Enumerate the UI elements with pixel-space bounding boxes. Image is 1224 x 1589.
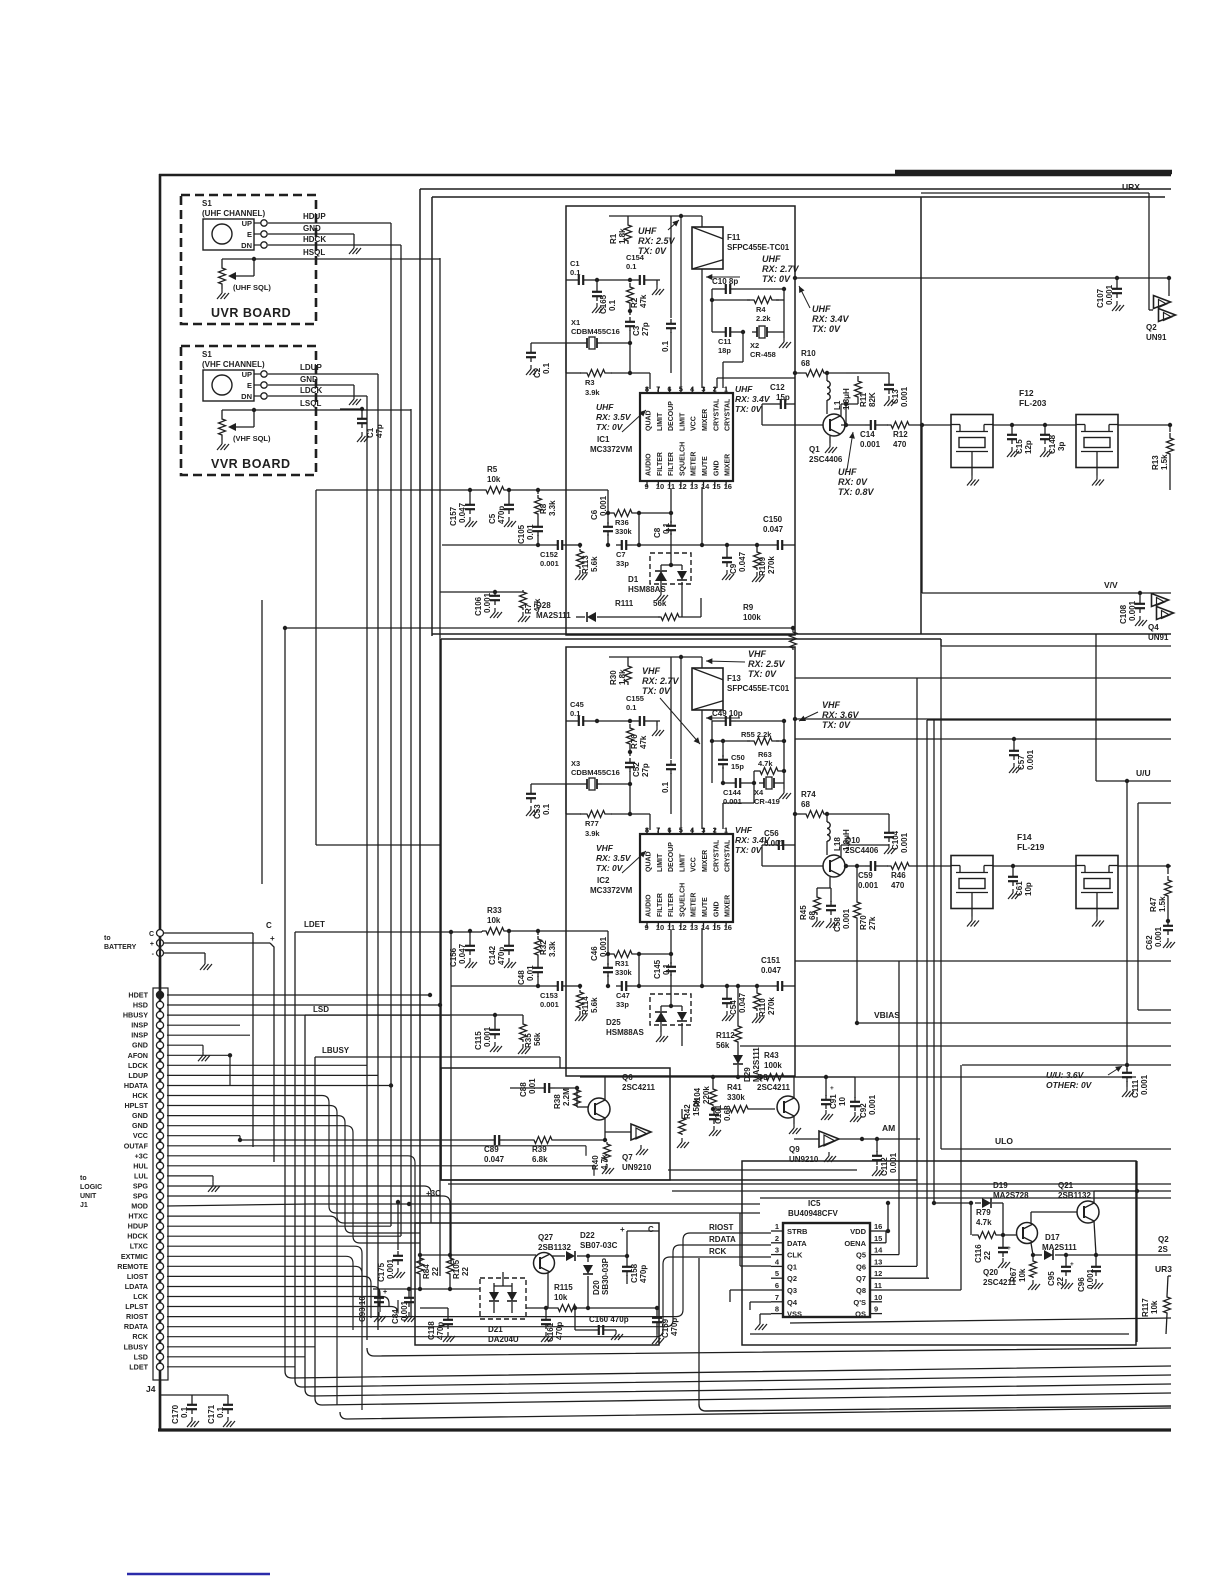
wire Q6 base <box>577 1088 588 1107</box>
svg-text:C142: C142 <box>488 945 497 965</box>
wire blue footer line <box>127 1573 270 1575</box>
wire IC5 q1 <box>740 1213 771 1266</box>
capacitor C14 <box>860 420 888 449</box>
wire vert 699 <box>699 1258 1171 1411</box>
svg-text:9: 9 <box>645 923 649 932</box>
diode D20 <box>583 1256 610 1310</box>
svg-text:LDET: LDET <box>129 1362 148 1371</box>
svg-text:C48: C48 <box>517 970 526 985</box>
svg-text:MIXER: MIXER <box>702 409 709 431</box>
wire audio box <box>441 1068 670 1180</box>
resistor R47 <box>1149 866 1172 921</box>
label RDATA <box>706 1235 771 1245</box>
wire X rails <box>712 721 784 783</box>
svg-text:TX: 0V: TX: 0V <box>642 686 671 696</box>
svg-text:C145: C145 <box>653 959 662 979</box>
wire R9 row <box>283 626 793 630</box>
svg-text:BU40948CFV: BU40948CFV <box>788 1209 838 1218</box>
capacitor C4 <box>661 216 676 373</box>
inductor L1 <box>827 373 851 414</box>
svg-text:GND: GND <box>713 460 720 476</box>
svg-text:2SC4211: 2SC4211 <box>757 1083 790 1092</box>
svg-text:VSS: VSS <box>787 1310 802 1319</box>
wire GND VHF <box>268 375 361 405</box>
svg-text:C144: C144 <box>723 788 742 797</box>
resistor R63 <box>754 750 786 783</box>
filter F12 b <box>1076 415 1118 486</box>
svg-text:Q27: Q27 <box>538 1233 554 1242</box>
svg-text:C111: C111 <box>1131 1079 1140 1098</box>
svg-text:UHF: UHF <box>812 304 831 314</box>
svg-text:LBUSY: LBUSY <box>124 1342 149 1351</box>
svg-text:J1: J1 <box>80 1202 88 1209</box>
capacitor C11 <box>712 327 745 355</box>
svg-text:C105: C105 <box>517 524 526 544</box>
svg-text:Q2: Q2 <box>1158 1235 1169 1244</box>
resistor R11 <box>846 373 877 407</box>
svg-text:RX: 3.5V: RX: 3.5V <box>596 412 632 422</box>
svg-text:2.2M: 2.2M <box>562 1088 571 1106</box>
switch S1 UHF terminals <box>254 220 267 248</box>
svg-text:27k: 27k <box>868 916 877 930</box>
resistor R40 <box>591 1142 614 1174</box>
svg-text:R8: R8 <box>539 503 548 514</box>
svg-text:X3: X3 <box>571 759 580 768</box>
svg-text:C1: C1 <box>570 259 580 268</box>
capacitor C7 <box>616 540 714 568</box>
wire UHF IF out row <box>793 276 1171 280</box>
wire pin12 net <box>882 1277 929 1279</box>
svg-text:RX: 2.5V: RX: 2.5V <box>638 236 676 246</box>
svg-text:7: 7 <box>656 826 660 835</box>
svg-text:5.6k: 5.6k <box>590 556 599 572</box>
svg-text:HSM88AS: HSM88AS <box>628 585 666 594</box>
svg-text:UN9210: UN9210 <box>622 1163 652 1172</box>
svg-text:0.001: 0.001 <box>868 1094 877 1115</box>
wire x285 drop <box>284 628 286 1371</box>
svg-text:C9: C9 <box>729 563 738 574</box>
capacitor C5 <box>488 490 516 527</box>
resistor R32 <box>535 929 558 958</box>
svg-text:68: 68 <box>801 800 810 809</box>
label D1 <box>628 575 666 594</box>
svg-text:0.001: 0.001 <box>1128 600 1137 621</box>
svg-text:1.8k: 1.8k <box>618 228 627 244</box>
svg-text:R77: R77 <box>585 819 599 828</box>
svg-text:OTHER: 0V: OTHER: 0V <box>1046 1080 1093 1090</box>
svg-text:C170: C170 <box>171 1404 180 1424</box>
label +3C <box>426 1189 441 1198</box>
op-amp IC2 MC3372VM body <box>640 834 733 922</box>
resistor R41 <box>711 1083 775 1113</box>
ground X2 <box>779 783 791 799</box>
ground stub <box>652 280 664 295</box>
svg-text:RX: 2.7V: RX: 2.7V <box>642 676 680 686</box>
svg-text:47p: 47p <box>375 424 384 438</box>
svg-text:0.047: 0.047 <box>458 943 467 964</box>
svg-text:R42: R42 <box>683 1104 692 1119</box>
capacitor C101 <box>709 1104 732 1136</box>
svg-text:R84: R84 <box>422 1264 431 1279</box>
svg-text:2SC4211: 2SC4211 <box>622 1083 655 1092</box>
svg-text:12: 12 <box>678 482 686 491</box>
svg-text:TX: 0V: TX: 0V <box>762 274 791 284</box>
label LSD <box>313 1005 329 1014</box>
diode D22 <box>552 1231 627 1261</box>
label RIOST <box>706 1223 771 1233</box>
svg-text:C160 470p: C160 470p <box>589 1315 629 1324</box>
svg-text:+3C: +3C <box>426 1189 441 1198</box>
svg-text:C56: C56 <box>764 829 779 838</box>
svg-text:IC5: IC5 <box>808 1199 821 1208</box>
svg-text:2: 2 <box>713 826 717 835</box>
wire F12 link <box>993 423 1076 427</box>
svg-text:RCK: RCK <box>709 1247 727 1256</box>
wire Q27 top row <box>418 1253 536 1257</box>
svg-text:10: 10 <box>838 1097 847 1106</box>
transistor Q6 <box>588 1073 655 1120</box>
svg-text:C13: C13 <box>891 389 900 404</box>
connector J1 pins <box>153 988 168 1380</box>
wire F top <box>681 216 702 227</box>
svg-text:R55 2.2k: R55 2.2k <box>741 730 772 739</box>
svg-text:HDCK: HDCK <box>303 235 326 244</box>
wire bundle x451 <box>450 931 452 1264</box>
svg-text:470p: 470p <box>670 1318 679 1336</box>
capacitor C2 <box>526 343 566 378</box>
crystal X3 <box>566 759 632 790</box>
svg-text:LIMIT: LIMIT <box>657 412 664 431</box>
label voltage pin1 <box>735 384 771 414</box>
wire LDCK <box>268 386 367 1340</box>
wire UHF inner box <box>566 206 795 635</box>
svg-text:SQUELCH: SQUELCH <box>679 883 686 917</box>
label UR3 <box>1155 1264 1172 1274</box>
svg-text:RX: 3.5V: RX: 3.5V <box>596 853 632 863</box>
wire IC5 q3 q4 <box>730 1290 771 1310</box>
svg-text:0.001: 0.001 <box>723 797 742 806</box>
svg-text:VVR BOARD: VVR BOARD <box>211 457 291 471</box>
svg-text:R13: R13 <box>1151 455 1160 470</box>
svg-text:HDET: HDET <box>128 991 148 1000</box>
svg-text:INSP: INSP <box>131 1031 148 1040</box>
svg-text:D25: D25 <box>606 1018 621 1027</box>
wire HDCK <box>268 235 401 1236</box>
capacitor C91 <box>821 1075 855 1120</box>
svg-text:SFPC455E-TC01: SFPC455E-TC01 <box>727 243 790 252</box>
svg-text:DECOUP: DECOUP <box>668 401 675 431</box>
svg-text:R2: R2 <box>630 297 639 308</box>
capacitor C158 <box>622 1231 659 1284</box>
op-amp IC2 MC3372VM pins <box>645 826 732 933</box>
svg-text:R117: R117 <box>1141 1298 1150 1317</box>
svg-text:C54: C54 <box>729 1000 738 1015</box>
wire R10 row <box>793 371 801 375</box>
wire bus 2 <box>285 1366 1171 1378</box>
svg-text:0.1: 0.1 <box>180 1406 189 1418</box>
svg-text:+: + <box>830 1085 834 1092</box>
svg-text:1: 1 <box>724 826 728 835</box>
inductor L18 <box>827 814 851 855</box>
svg-text:SB30-03P: SB30-03P <box>601 1257 610 1295</box>
label S1 UHF <box>202 199 265 218</box>
svg-text:GND: GND <box>300 375 318 384</box>
svg-text:VHF: VHF <box>735 825 753 835</box>
svg-text:0.1: 0.1 <box>542 803 551 815</box>
resistor R74 <box>801 790 846 818</box>
svg-text:0.001: 0.001 <box>860 440 881 449</box>
svg-text:470: 470 <box>891 881 905 890</box>
label U/U <box>1136 768 1151 778</box>
wire connector fan <box>167 993 706 1410</box>
wire row HUL end <box>593 1166 595 1176</box>
wire row OUTAF end <box>585 1146 587 1156</box>
transistor Q8 <box>757 1073 799 1118</box>
svg-text:UVR BOARD: UVR BOARD <box>211 306 291 320</box>
svg-text:R39: R39 <box>532 1145 547 1154</box>
svg-text:10k: 10k <box>487 475 501 484</box>
svg-text:R76: R76 <box>630 734 639 749</box>
wire C57 row <box>795 737 1171 741</box>
capacitor C144 <box>723 778 756 806</box>
wire Q1 base <box>762 424 823 426</box>
wire HSQL <box>254 248 440 1276</box>
wire row 1182 <box>448 1183 1171 1185</box>
capacitor C107 <box>1096 278 1124 311</box>
wire VHF IF out row <box>793 717 1171 721</box>
svg-text:R11: R11 <box>859 392 868 407</box>
svg-text:5: 5 <box>679 826 683 835</box>
svg-text:AUDIO: AUDIO <box>646 894 653 917</box>
svg-text:C148: C148 <box>1048 434 1057 454</box>
svg-text:FILTER: FILTER <box>657 452 664 476</box>
svg-text:D29: D29 <box>743 1067 752 1082</box>
svg-text:47k: 47k <box>639 735 648 749</box>
svg-text:AUDIO: AUDIO <box>646 453 653 476</box>
capacitor C165 <box>592 280 617 314</box>
capacitor C47 <box>616 981 714 1009</box>
label RCK <box>706 1247 771 1257</box>
svg-text:16: 16 <box>724 923 732 932</box>
label F14 <box>1017 832 1045 852</box>
svg-text:LIMIT: LIMIT <box>657 853 664 872</box>
wire top node <box>609 655 702 830</box>
wire row 678 <box>795 677 1171 679</box>
svg-text:VCC: VCC <box>691 857 698 872</box>
svg-text:LUL: LUL <box>134 1171 149 1180</box>
svg-text:RX: 3.4V: RX: 3.4V <box>735 394 771 404</box>
capacitor C46 <box>590 936 613 988</box>
svg-text:0.01: 0.01 <box>526 965 535 981</box>
svg-text:Q20: Q20 <box>983 1268 999 1277</box>
svg-text:0.1: 0.1 <box>626 703 636 712</box>
wire R3 to IC <box>630 343 650 389</box>
svg-text:7: 7 <box>775 1293 779 1302</box>
svg-text:to: to <box>104 935 111 942</box>
svg-text:C: C <box>648 1225 654 1234</box>
svg-text:IC2: IC2 <box>597 876 610 885</box>
svg-text:TX: 0V: TX: 0V <box>735 404 763 414</box>
svg-text:C158: C158 <box>630 1263 639 1283</box>
svg-text:TX: 0V: TX: 0V <box>822 720 851 730</box>
resistor R114 <box>575 984 599 1021</box>
svg-text:J4: J4 <box>146 1384 156 1394</box>
svg-text:15: 15 <box>874 1234 882 1243</box>
svg-text:R105: R105 <box>452 1259 461 1279</box>
wire battery stem <box>159 936 161 995</box>
svg-text:27p: 27p <box>641 322 650 336</box>
svg-text:R38: R38 <box>553 1094 562 1109</box>
svg-text:C165: C165 <box>599 294 608 314</box>
capacitor C4 <box>661 657 676 814</box>
svg-text:C161: C161 <box>546 1322 555 1342</box>
svg-text:0.047: 0.047 <box>484 1155 505 1164</box>
svg-text:Q7: Q7 <box>856 1274 866 1283</box>
wire pin14 net <box>882 961 899 1255</box>
wire R47 box <box>1138 803 1171 1010</box>
svg-text:C57: C57 <box>1017 755 1026 770</box>
svg-text:AM: AM <box>882 1123 895 1133</box>
svg-text:C96: C96 <box>1077 1277 1086 1292</box>
svg-text:R1: R1 <box>609 233 618 244</box>
wire squelch left drop <box>316 490 441 845</box>
wire LSQL <box>254 399 411 1317</box>
wire page border top <box>159 174 1171 177</box>
wire ULO row <box>941 1148 1171 1150</box>
svg-text:C89: C89 <box>484 1145 499 1154</box>
svg-text:33p: 33p <box>616 1000 629 1009</box>
svg-text:F11: F11 <box>727 233 741 242</box>
svg-text:GND: GND <box>713 901 720 917</box>
svg-text:OUTAF: OUTAF <box>124 1141 149 1150</box>
svg-text:2SB1132: 2SB1132 <box>1058 1191 1091 1200</box>
resistor R105 <box>447 1253 471 1291</box>
svg-text:0.01: 0.01 <box>528 1078 537 1094</box>
svg-text:22: 22 <box>1056 1277 1065 1286</box>
ground stub <box>652 721 664 736</box>
capacitor C116 <box>974 1235 1011 1268</box>
wire Q6 collector <box>580 1077 761 1100</box>
capacitor C154 <box>626 253 660 285</box>
svg-text:(VHF CHANNEL): (VHF CHANNEL) <box>202 360 265 369</box>
svg-text:82K: 82K <box>868 392 877 407</box>
svg-text:HSM88AS: HSM88AS <box>606 1028 644 1037</box>
wire Q21 top <box>1094 1189 1139 1203</box>
svg-text:LDUP: LDUP <box>300 363 322 372</box>
svg-text:C150: C150 <box>763 515 783 524</box>
diode D19 <box>975 1181 1029 1235</box>
svg-text:R3: R3 <box>585 378 595 387</box>
svg-text:0.001: 0.001 <box>540 1000 559 1009</box>
op-amp IC1 MC3372VM pins <box>645 385 732 492</box>
svg-text:C157: C157 <box>449 506 458 526</box>
wire box B VHF bottom <box>441 1179 917 1181</box>
capacitor C105 <box>517 517 543 545</box>
filter F14 a <box>951 856 993 927</box>
svg-text:10k: 10k <box>554 1293 568 1302</box>
svg-text:TX: 0V: TX: 0V <box>748 669 777 679</box>
svg-text:X4: X4 <box>754 788 764 797</box>
svg-text:VDD: VDD <box>850 1227 866 1236</box>
svg-text:27p: 27p <box>641 763 650 777</box>
svg-text:D1: D1 <box>628 575 639 584</box>
svg-text:LDCK: LDCK <box>128 1061 149 1070</box>
svg-text:16: 16 <box>724 482 732 491</box>
svg-text:C49 10p: C49 10p <box>712 709 743 718</box>
capacitor C95 <box>1047 1255 1074 1289</box>
label V/V <box>1104 580 1118 590</box>
wire UU drop <box>1126 781 1128 1065</box>
svg-text:TX: 0V: TX: 0V <box>812 324 841 334</box>
svg-text:0.047: 0.047 <box>458 502 467 523</box>
svg-text:C14: C14 <box>860 430 875 439</box>
capacitor C104 <box>846 814 909 854</box>
svg-text:C171: C171 <box>207 1404 216 1424</box>
wire battery plus <box>164 943 274 1162</box>
label voltage pin1 v <box>735 825 771 855</box>
wire vert 917 <box>916 678 918 1266</box>
svg-text:5: 5 <box>679 385 683 394</box>
wire F14 out <box>1118 864 1171 868</box>
svg-text:R115: R115 <box>554 1283 573 1292</box>
wire LSD row <box>305 1015 495 1389</box>
svg-text:CDBM455C16: CDBM455C16 <box>571 327 620 336</box>
svg-text:HPLST: HPLST <box>124 1101 148 1110</box>
capacitor C175 <box>377 1200 405 1282</box>
svg-text:14: 14 <box>874 1246 883 1255</box>
svg-text:C115: C115 <box>474 1031 483 1050</box>
wire vert 941 <box>940 646 942 1149</box>
svg-text:R32: R32 <box>539 940 548 955</box>
svg-text:MOD: MOD <box>131 1202 148 1211</box>
wire row 1191 <box>672 1190 1171 1192</box>
svg-text:6: 6 <box>775 1281 779 1290</box>
VVR board dashed box <box>181 346 316 475</box>
wire page border bottom <box>158 1428 1171 1431</box>
svg-text:F13: F13 <box>727 674 741 683</box>
svg-text:REMOTE: REMOTE <box>117 1262 148 1271</box>
capacitor C150 <box>714 515 795 550</box>
wire row 961 <box>795 960 1171 962</box>
capacitor C111 <box>1122 1065 1149 1098</box>
svg-text:CR-419: CR-419 <box>754 797 780 806</box>
svg-text:DECOUP: DECOUP <box>668 842 675 872</box>
svg-text:9: 9 <box>874 1305 878 1314</box>
svg-text:UP: UP <box>242 370 252 379</box>
svg-text:C104: C104 <box>891 830 900 850</box>
svg-text:Q'S: Q'S <box>853 1298 866 1307</box>
label VHF RX3.6 <box>799 700 860 730</box>
svg-text:CRYSTAL: CRYSTAL <box>725 839 732 872</box>
svg-text:METER: METER <box>691 893 698 918</box>
capacitor C148 <box>1040 425 1066 457</box>
svg-text:UNIT: UNIT <box>80 1193 97 1200</box>
transistor Q4 UN91 <box>1148 594 1174 643</box>
svg-text:LIOST: LIOST <box>127 1272 149 1281</box>
transistor Q1 <box>809 414 845 464</box>
svg-text:13: 13 <box>690 482 698 491</box>
capacitor C1 <box>566 259 599 285</box>
svg-text:R112: R112 <box>716 1031 735 1040</box>
label ULO <box>995 1136 1013 1146</box>
capacitor C171 <box>207 1395 235 1427</box>
svg-text:10k: 10k <box>1150 1300 1159 1314</box>
resistor R77 <box>566 784 632 838</box>
capacitor C48 <box>517 958 543 986</box>
svg-text:Q4: Q4 <box>1148 623 1159 632</box>
capacitor C155 <box>626 694 660 726</box>
svg-text:9: 9 <box>645 482 649 491</box>
